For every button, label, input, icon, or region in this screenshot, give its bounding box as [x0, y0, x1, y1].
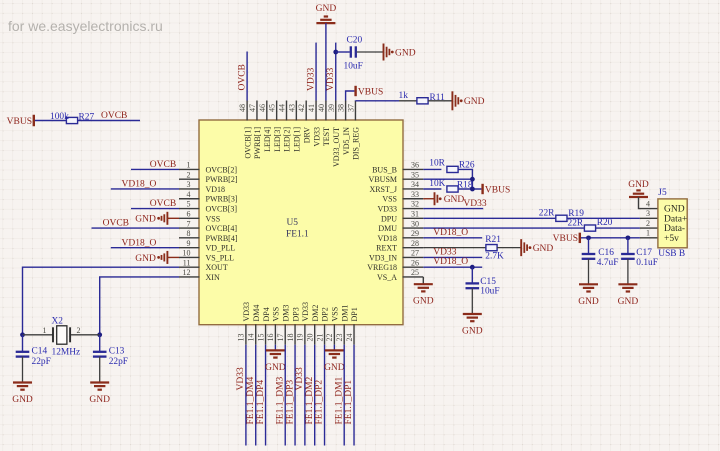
wire XOUT pin11 to crystal [23, 267, 180, 335]
wire R11 to ground [428, 100, 452, 102]
svg-text:22pF: 22pF [32, 357, 51, 367]
U5 pin 39 (VD33_OUT) [335, 101, 337, 121]
wire VBUS to USB pin1 [581, 237, 640, 239]
resistor R21 2.7K [486, 245, 497, 251]
svg-text:U5: U5 [287, 218, 299, 228]
svg-text:VBUS: VBUS [358, 88, 383, 98]
svg-text:VD33: VD33 [433, 248, 456, 258]
svg-text:VD33: VD33 [236, 367, 246, 390]
svg-text:VD33_OUT: VD33_OUT [332, 127, 341, 167]
ground C14 [13, 381, 32, 383]
svg-text:FE1.1_DP1: FE1.1_DP1 [344, 380, 354, 425]
svg-text:16: 16 [266, 334, 275, 342]
svg-text:PWRB[4]: PWRB[4] [206, 234, 238, 243]
svg-text:37: 37 [346, 104, 355, 112]
wire pin37 to R11 [355, 100, 399, 102]
U5 pin 6 (VSS) [179, 217, 200, 219]
svg-text:10K: 10K [429, 179, 445, 189]
wire VBUS to R27 [35, 120, 67, 122]
wire R26 to node [458, 169, 472, 189]
svg-text:FE1.1: FE1.1 [286, 230, 309, 240]
svg-text:VD33: VD33 [295, 367, 305, 390]
svg-text:VBUS: VBUS [553, 234, 578, 244]
svg-text:2: 2 [187, 170, 191, 179]
U5 pin 27 (VD3_IN) [403, 256, 424, 258]
svg-text:VSS: VSS [382, 195, 397, 204]
J5 pin 4 (GND) [640, 208, 658, 210]
capacitor C20 10uF [350, 46, 352, 57]
U5 pin 10 (VS_PLL) [179, 256, 200, 258]
svg-text:for we.easyelectronics.ru: for we.easyelectronics.ru [8, 18, 163, 34]
ground C15 [463, 313, 482, 315]
wire net VD18_O pin3 [111, 188, 179, 190]
node junction VBUSM [470, 177, 475, 182]
svg-text:DM3: DM3 [281, 305, 290, 322]
svg-text:X2: X2 [52, 317, 64, 327]
svg-text:OVCB: OVCB [237, 64, 247, 90]
svg-text:38: 38 [337, 104, 346, 112]
wire net VD18_O pin26 [423, 266, 482, 268]
U5 pin 14 (DM4) [255, 324, 257, 345]
svg-text:20: 20 [306, 334, 315, 342]
svg-text:10uF: 10uF [344, 61, 363, 71]
resistor R19 22R [556, 215, 567, 221]
node junction XOUT/C14 [20, 332, 25, 337]
svg-text:22pF: 22pF [109, 357, 128, 367]
svg-text:1k: 1k [399, 91, 409, 101]
svg-text:OVCB[1]: OVCB[1] [243, 127, 252, 159]
svg-text:GND: GND [444, 195, 465, 205]
svg-text:41: 41 [307, 104, 316, 112]
svg-text:VSS: VSS [272, 307, 281, 322]
wire net VD18_O pin29 [423, 237, 482, 239]
svg-text:OVCB[2]: OVCB[2] [206, 165, 238, 174]
svg-text:+5v: +5v [664, 234, 679, 244]
svg-text:BUS_B: BUS_B [372, 165, 397, 174]
svg-text:FE1.1_DP3: FE1.1_DP3 [285, 380, 295, 425]
U5 pin 36 (BUS_B) [403, 168, 424, 170]
svg-text:R20: R20 [597, 218, 613, 228]
power port GND (R21) [520, 239, 522, 256]
svg-text:GND: GND [664, 205, 685, 215]
svg-text:GND: GND [464, 97, 485, 107]
svg-text:46: 46 [258, 104, 267, 112]
U5 pin 31 (DPU) [403, 217, 424, 219]
svg-text:J5: J5 [658, 188, 667, 198]
svg-text:VD18: VD18 [206, 185, 226, 194]
svg-text:VSS: VSS [206, 214, 221, 223]
wire net FE1.1_DM1 pin 23 [343, 345, 345, 446]
svg-text:FE1.1_DP2: FE1.1_DP2 [315, 380, 325, 425]
U5 pin 23 (DM1) [343, 324, 345, 345]
svg-text:4: 4 [187, 190, 191, 199]
wire pin36 to R26 [423, 168, 441, 170]
svg-text:DM4: DM4 [252, 305, 261, 322]
node junction C17 [626, 235, 631, 240]
svg-text:LED[3]: LED[3] [273, 127, 282, 152]
svg-text:VSS: VSS [331, 307, 340, 322]
U5 pin 18 (DP3) [294, 324, 296, 345]
U5 pin 29 (VD18) [403, 237, 424, 239]
wire net FE1.1_DP1 pin 24 [353, 345, 355, 446]
wire R18 to VBUS port [458, 188, 481, 190]
svg-text:DPU: DPU [381, 214, 397, 223]
U5 pin 33 (VSS) [403, 198, 424, 200]
svg-text:17: 17 [276, 334, 285, 342]
crystal X2 12MHz [52, 327, 54, 342]
svg-text:Data+: Data+ [664, 214, 687, 224]
svg-text:VBUSM: VBUSM [369, 175, 397, 184]
svg-text:33: 33 [411, 190, 419, 199]
wire net OVCB pin48 [246, 52, 248, 101]
svg-text:FE1.1_DM4: FE1.1_DM4 [246, 376, 256, 424]
svg-text:VD33: VD33 [306, 68, 316, 91]
svg-text:VD33: VD33 [242, 302, 251, 322]
svg-text:23: 23 [335, 334, 344, 342]
U5 pin 25 (VS_A) [403, 276, 424, 278]
wire C14 to ground [22, 357, 24, 383]
svg-text:VD18_O: VD18_O [122, 239, 157, 249]
U5 pin 15 (DP4) [265, 324, 267, 345]
svg-text:7: 7 [187, 219, 191, 228]
svg-text:30: 30 [411, 219, 419, 228]
U5 pin 42 (DRV) [305, 101, 307, 121]
U5 pin 1 (OVCB[2]) [179, 168, 200, 170]
wire crystal pin 1 [23, 334, 54, 336]
svg-text:DIS_REG: DIS_REG [352, 127, 361, 160]
svg-text:VD_PLL: VD_PLL [206, 244, 236, 253]
svg-text:10: 10 [183, 249, 191, 258]
resistor R11 1k [417, 98, 428, 104]
svg-text:45: 45 [268, 104, 277, 112]
svg-text:4.7uF: 4.7uF [597, 258, 619, 268]
wire C20 to ground [357, 51, 384, 53]
node junction pin39/C20 [333, 50, 338, 55]
power port GND (R11) [451, 91, 453, 110]
svg-text:VD18_O: VD18_O [433, 257, 468, 267]
svg-text:VD33: VD33 [312, 127, 321, 147]
svg-text:C20: C20 [347, 36, 363, 46]
svg-text:OVCB[3]: OVCB[3] [206, 205, 238, 214]
svg-text:39: 39 [327, 104, 336, 112]
svg-text:GND: GND [12, 395, 33, 405]
wire pin38 to VBUS port [346, 91, 355, 101]
svg-text:VS_PLL: VS_PLL [206, 253, 235, 262]
svg-text:1: 1 [187, 161, 191, 170]
svg-text:Data-: Data- [664, 224, 685, 234]
svg-text:22R: 22R [539, 209, 555, 219]
wire net VD33 pin32 [423, 208, 483, 210]
svg-text:13: 13 [237, 334, 246, 342]
node junction XIN/C13 [97, 332, 102, 337]
wire net VD33 pin 19 [304, 345, 306, 446]
svg-text:GND: GND [578, 297, 599, 307]
svg-text:12: 12 [183, 268, 191, 277]
capacitor C15 10uF [471, 267, 473, 283]
svg-text:GND: GND [462, 327, 483, 337]
wire R20 to USB pin2 [596, 227, 640, 229]
svg-text:48: 48 [238, 104, 247, 112]
wire net FE1.1_DP2 pin 21 [324, 345, 326, 446]
svg-text:44: 44 [278, 104, 287, 112]
svg-text:DP2: DP2 [321, 307, 330, 321]
wire GND to J5 pin4 [639, 197, 641, 209]
U5 pin 47 (PWRB[1]) [256, 101, 258, 121]
svg-text:GND: GND [135, 254, 156, 264]
connector J5 USB B body [658, 199, 687, 248]
svg-text:VD18: VD18 [377, 234, 397, 243]
svg-text:VD5_IN: VD5_IN [342, 127, 351, 155]
wire C13 to ground [99, 357, 101, 383]
node junction R18/VBUS [470, 187, 475, 192]
wire net FE1.1_DM3 pin 17 [284, 345, 286, 446]
power port GND pin33 [423, 198, 434, 200]
svg-text:R19: R19 [568, 209, 584, 219]
svg-text:VBUS: VBUS [485, 186, 510, 196]
U5 pin 22 (VSS) [333, 324, 335, 345]
U5 pin 4 (PWRB[3]) [179, 198, 200, 200]
svg-text:2: 2 [77, 326, 81, 335]
svg-text:1: 1 [646, 229, 650, 238]
svg-text:VD33: VD33 [463, 199, 486, 209]
wire R19 to USB pin3 [567, 217, 640, 219]
svg-text:PWRB[3]: PWRB[3] [206, 195, 238, 204]
U5 pin 37 (DIS_REG) [354, 101, 356, 121]
wire net FE1.1_DM4 pin 14 [255, 345, 257, 446]
U5 pin 46 (LED[4]) [266, 101, 268, 121]
ground pin 16 VSS [266, 349, 285, 351]
U5 pin 12 (XIN) [179, 276, 200, 278]
resistor R26 10R [447, 166, 458, 172]
J5 pin 2 (Data-) [640, 227, 658, 229]
svg-text:22R: 22R [568, 219, 584, 229]
wire net VD33 pin 13 [245, 345, 247, 446]
resistor R27 100k [66, 117, 77, 123]
U5 pin 43 (LED[1]) [295, 101, 297, 121]
U5 pin 21 (DP2) [324, 324, 326, 345]
capacitor C14 22pF [22, 335, 24, 351]
U5 pin 40 (TEST) [325, 101, 327, 121]
J5 pin 1 (+5v) [640, 237, 658, 239]
U5 pin 34 (XRST_J) [403, 188, 424, 190]
svg-text:42: 42 [297, 104, 306, 112]
U5 pin 17 (DM3) [284, 324, 286, 345]
wire GND to pin40 [325, 23, 327, 100]
svg-text:FE1.1_DM2: FE1.1_DM2 [305, 376, 315, 424]
U5 pin 9 (VD_PLL) [179, 247, 200, 249]
svg-text:2: 2 [646, 219, 650, 228]
svg-text:GND: GND [324, 363, 345, 373]
U5 pin 45 (LED[3]) [276, 101, 278, 121]
svg-text:XOUT: XOUT [206, 263, 228, 272]
svg-text:27: 27 [411, 249, 419, 258]
svg-text:C14: C14 [32, 347, 48, 357]
svg-text:VREG18: VREG18 [367, 263, 397, 272]
wire C15 to ground [471, 288, 473, 314]
U5 pin 13 (VD33) [245, 324, 247, 345]
svg-text:10R: 10R [429, 159, 445, 169]
U5 pin 26 (VREG18) [403, 266, 424, 268]
U5 pin 28 (REXT) [403, 247, 424, 249]
svg-text:26: 26 [411, 258, 419, 267]
wire DMU pin30 to R20 [423, 227, 584, 229]
svg-text:100k: 100k [50, 112, 69, 122]
svg-text:OVCB: OVCB [150, 160, 176, 170]
svg-text:11: 11 [183, 258, 191, 267]
svg-text:DP1: DP1 [350, 307, 359, 321]
svg-text:VS_A: VS_A [377, 273, 397, 282]
wire R27 to OVCB stub [78, 120, 140, 122]
svg-text:PWRB[2]: PWRB[2] [206, 175, 238, 184]
svg-text:34: 34 [411, 180, 419, 189]
svg-text:8: 8 [187, 229, 191, 238]
power port GND pin6 [167, 217, 179, 219]
power port VBUS (R18) [481, 184, 483, 194]
svg-text:35: 35 [411, 170, 419, 179]
svg-text:12MHz: 12MHz [52, 348, 81, 358]
svg-text:19: 19 [296, 334, 305, 342]
svg-text:4: 4 [646, 199, 650, 208]
wire pin25 to ground [422, 277, 424, 284]
svg-text:24: 24 [345, 334, 354, 342]
capacitor C13 22pF [99, 335, 101, 351]
svg-text:LED[4]: LED[4] [263, 127, 272, 152]
svg-text:15: 15 [256, 334, 265, 342]
svg-text:GND: GND [89, 395, 110, 405]
U5 pin 35 (VBUSM) [403, 178, 424, 180]
svg-text:2.7K: 2.7K [485, 252, 504, 262]
wire DPU pin31 to R19 [423, 217, 556, 219]
U5 pin 24 (DP1) [353, 324, 355, 345]
power port VBUS pin38 [354, 86, 356, 96]
svg-text:OVCB: OVCB [150, 199, 176, 209]
svg-text:GND: GND [413, 297, 434, 307]
svg-text:21: 21 [315, 334, 324, 342]
node junction C16 [586, 235, 591, 240]
U5 pin 8 (PWRB[4]) [179, 237, 200, 239]
U5 pin 32 (VD33) [403, 208, 424, 210]
U5 pin 48 (OVCB[1]) [246, 101, 248, 121]
svg-text:TEST: TEST [322, 127, 331, 146]
svg-text:18: 18 [286, 334, 295, 342]
svg-text:C17: C17 [636, 248, 652, 258]
U5 pin 3 (VD18) [179, 188, 200, 190]
svg-text:GND: GND [533, 244, 554, 254]
svg-text:GND: GND [628, 180, 649, 190]
wire net VD18_O pin9 [111, 247, 179, 249]
resistor R18 10K [447, 186, 458, 192]
power port GND pin10 [167, 256, 179, 258]
svg-text:6: 6 [187, 210, 191, 219]
wire net VD33 pin27 [423, 256, 482, 258]
U5 pin 2 (PWRB[2]) [179, 178, 200, 180]
svg-text:VD33: VD33 [326, 68, 336, 91]
U5 pin 7 (OVCB[4]) [179, 227, 200, 229]
svg-text:1: 1 [43, 326, 47, 335]
svg-text:28: 28 [411, 239, 419, 248]
svg-text:C13: C13 [109, 347, 125, 357]
wire pin 16 to ground [274, 345, 276, 351]
wire net OVCB pin1 [131, 168, 179, 170]
svg-text:22: 22 [325, 334, 334, 342]
svg-text:3: 3 [646, 209, 650, 218]
wire R11 left [399, 100, 417, 102]
wire R21 to ground [497, 247, 521, 249]
wire C17 to ground [627, 259, 629, 285]
svg-text:36: 36 [411, 161, 419, 170]
wire XIN pin12 to crystal [100, 277, 179, 335]
svg-text:OVCB: OVCB [103, 219, 129, 229]
ground pin25 VS_A [414, 283, 433, 285]
U5 pin 5 (OVCB[3]) [179, 208, 200, 210]
svg-text:25: 25 [411, 268, 419, 277]
wire pin39 to C20 [336, 51, 350, 53]
svg-text:43: 43 [287, 104, 296, 112]
U5 pin 19 (VD33) [304, 324, 306, 345]
svg-text:40: 40 [317, 104, 326, 112]
svg-text:DM1: DM1 [340, 305, 349, 322]
svg-text:VBUS: VBUS [7, 117, 32, 127]
U5 pin 30 (DMU) [403, 227, 424, 229]
wire net VBUSM pin35 [423, 178, 472, 180]
svg-text:GND: GND [135, 215, 156, 225]
wire net FE1.1_DM2 pin 20 [314, 345, 316, 446]
svg-text:LED[2]: LED[2] [283, 127, 292, 152]
svg-text:FE1.1_DM3: FE1.1_DM3 [275, 376, 285, 424]
U5 pin 44 (LED[2]) [286, 101, 288, 121]
svg-text:29: 29 [411, 229, 419, 238]
svg-text:32: 32 [411, 200, 419, 209]
ground C13 [90, 381, 109, 383]
svg-text:R21: R21 [485, 235, 501, 245]
svg-text:OVCB: OVCB [101, 111, 127, 121]
U5 pin 16 (VSS) [274, 324, 276, 345]
ground C17 [618, 283, 637, 285]
svg-text:OVCB[4]: OVCB[4] [206, 224, 238, 233]
power port GND (C20) [383, 44, 385, 61]
U5 pin 38 (VD5_IN) [345, 101, 347, 121]
wire net OVCB pin5 [131, 208, 179, 210]
J5 pin 3 (Data+) [640, 217, 658, 219]
wire net VD33 pin41 [315, 43, 317, 101]
svg-text:5: 5 [187, 200, 191, 209]
svg-text:VD33: VD33 [377, 205, 397, 214]
svg-text:31: 31 [411, 210, 419, 219]
node junction pin26/C15 [470, 265, 475, 270]
svg-text:VD18_O: VD18_O [433, 228, 468, 238]
svg-text:C15: C15 [480, 277, 496, 287]
wire net FE1.1_DP3 pin 18 [294, 345, 296, 446]
svg-text:USB B: USB B [658, 249, 685, 259]
ground C16 [579, 283, 598, 285]
svg-text:DP4: DP4 [262, 307, 271, 321]
svg-text:14: 14 [247, 334, 256, 342]
svg-text:9: 9 [187, 239, 191, 248]
svg-text:DMU: DMU [378, 224, 397, 233]
svg-text:10uF: 10uF [480, 286, 499, 296]
svg-text:VD18_O: VD18_O [122, 179, 157, 189]
svg-text:47: 47 [248, 104, 257, 112]
resistor R20 22R [584, 225, 595, 231]
svg-text:DP3: DP3 [291, 307, 300, 321]
wire net OVCB pin7 [92, 227, 180, 229]
svg-text:FE1.1_DM1: FE1.1_DM1 [334, 376, 344, 424]
svg-text:DRV: DRV [302, 127, 311, 143]
svg-text:XRST_J: XRST_J [369, 185, 397, 194]
wire pin34 to R18 [423, 188, 441, 190]
svg-text:VD3_IN: VD3_IN [369, 253, 397, 262]
svg-text:GND: GND [618, 297, 639, 307]
